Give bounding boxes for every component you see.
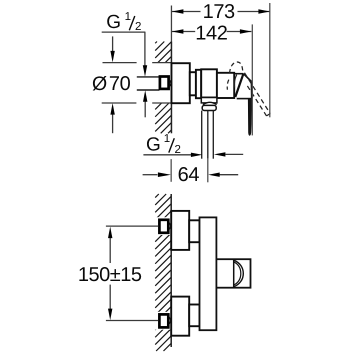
- dimension Ø70 arrows: [112, 36, 114, 53]
- handle neck: [243, 74, 251, 82]
- mixer body (side view): [201, 69, 217, 97]
- svg-text:2: 2: [175, 144, 181, 156]
- hose flange: [201, 98, 217, 103]
- dimension 150±15: [109, 237, 111, 263]
- union nipple arc upper (plan): [169, 223, 170, 229]
- svg-text:1: 1: [164, 133, 170, 145]
- union nut upper (plan): [189, 220, 199, 242]
- union nipple arc: [169, 80, 170, 87]
- handle open position (dashed): [230, 62, 245, 73]
- handle cap cone: [234, 73, 243, 75]
- svg-text:G: G: [146, 134, 161, 155]
- union nut lower (plan): [189, 305, 199, 327]
- dimension 142 line: [172, 31, 195, 33]
- svg-text:1: 1: [125, 11, 131, 23]
- wall face line (plan view): [170, 194, 172, 347]
- supply pipe lower (plan): [106, 320, 158, 322]
- svg-text:70: 70: [109, 73, 131, 95]
- extension line (142): [251, 24, 253, 135]
- G1/2 top leader: [102, 31, 146, 33]
- svg-text:64: 64: [178, 164, 200, 186]
- svg-text:2: 2: [135, 21, 141, 33]
- shower hose tube: [201, 111, 203, 159]
- mixer body (plan view): [200, 217, 217, 330]
- extension line wall (64): [170, 159, 172, 182]
- svg-text:150±15: 150±15: [78, 264, 142, 286]
- hose centreline extension: [207, 159, 209, 183]
- dimension 64: [143, 174, 158, 176]
- recess box in wall: [152, 62, 171, 64]
- G1/2 lower leader: [143, 154, 191, 156]
- escutcheon: [171, 63, 189, 103]
- extension line right (173): [269, 3, 271, 117]
- union connector: [190, 72, 196, 95]
- hose dome: [203, 102, 217, 104]
- escutcheon upper (plan): [171, 211, 189, 250]
- wall hatching (plan view): [155, 194, 159, 198]
- svg-text:Ø: Ø: [92, 73, 107, 95]
- in-wall union square lower (plan): [159, 314, 168, 327]
- dimension 173 line: [172, 11, 201, 13]
- handle knob arcs: [234, 260, 243, 286]
- handle lever blade (closed): [248, 99, 252, 136]
- supply pipe upper (plan): [106, 225, 158, 227]
- svg-text:173: 173: [203, 1, 235, 23]
- hose nut: [202, 105, 216, 110]
- union nipple arc lower (plan): [169, 317, 170, 323]
- handle knob (plan view): [216, 259, 250, 288]
- dimension Ø70 extension lines: [103, 62, 137, 64]
- in-wall union square: [160, 77, 169, 89]
- wall face line / extension line: [170, 6, 172, 42]
- svg-text:142: 142: [195, 22, 227, 44]
- in-wall union square upper (plan): [159, 220, 168, 233]
- cartridge housing: [217, 73, 234, 98]
- escutcheon lower (plan): [171, 297, 189, 336]
- hatch clearance boxes: [155, 217, 172, 235]
- handle knob face line: [233, 259, 235, 288]
- union nut ring: [196, 70, 201, 98]
- wall hatching (side view): [155, 42, 157, 44]
- supply pipe stub: [137, 76, 160, 78]
- svg-text:G: G: [106, 12, 121, 33]
